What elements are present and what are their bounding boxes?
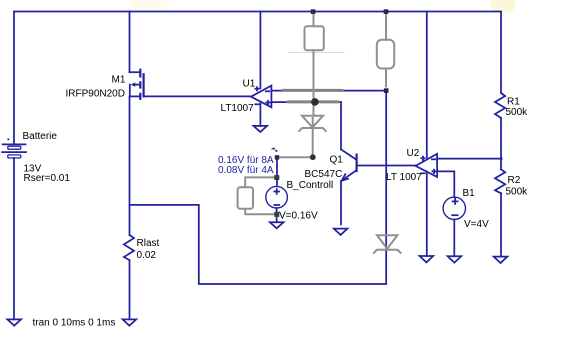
wire U2 V+ supply drop [426,12,428,158]
wire source sense branch [130,91,387,284]
ghost wire rail to box 3 [385,13,387,40]
junction dot loop bottom [274,212,279,217]
ground U1 [254,126,268,132]
wire top rail [14,11,501,13]
svg-text:500k: 500k [506,187,529,198]
svg-text:Batterie: Batterie [23,131,58,142]
R2 value 500k [506,187,529,198]
U2 label [407,148,420,159]
wire U2 inverting input to divider [437,158,501,160]
resistor R2 [495,169,505,193]
wire U1 V- to ground [259,102,261,126]
ground battery [7,319,21,325]
voltage source B_Controll [266,186,288,208]
Rlast value [137,250,157,261]
wire B_Controll top [276,157,278,186]
ghost wire box 3 down [385,69,387,87]
svg-text:Q1: Q1 [330,155,344,166]
op-amp U1 [251,86,271,108]
wire R1 to R2 [500,118,502,169]
Rlast label [137,238,160,249]
svg-text:500k: 500k [506,107,529,118]
svg-text:tran 0 10ms 0 1ms: tran 0 10ms 0 1ms [33,318,116,329]
B1 label [463,188,476,199]
B1 value V=4V [464,219,489,230]
resistor Rlast [124,235,134,260]
R2 label [508,175,521,186]
faint artifact line [288,52,345,54]
wire R2 to ground [500,193,502,256]
svg-text:0.02: 0.02 [137,250,157,261]
battery V1 Batterie [2,138,26,158]
wire U1 inverting input to node [271,90,386,92]
resistor R1 [495,93,505,118]
svg-text:R2: R2 [508,175,521,186]
Q1 value BC547C [305,169,343,180]
svg-text:U2: U2 [407,148,420,159]
wire M1 source down [129,96,131,235]
wire U2 V- to ground [426,172,428,257]
transistor Q1 [341,102,416,224]
junction dot U1 plus gray cross [311,98,319,106]
svg-text:B1: B1 [463,188,476,199]
svg-text:Rser=0.01: Rser=0.01 [24,173,71,184]
ghost component box 1 [305,26,324,50]
Q1 label [330,155,344,166]
wire battery to ground [13,158,15,319]
wire M1 gate to U1 output [144,95,251,97]
ghost loop top wire [245,177,277,187]
junction dot rail gray2 [384,9,389,14]
svg-text:Rlast: Rlast [137,238,160,249]
ghost zener diode D2 [374,235,401,253]
ghost wire box1 to zener [313,50,315,115]
U1 label [243,79,256,90]
ground B_Controll [270,222,284,228]
battery label Batterie [23,131,58,142]
svg-text:0.08V für 4A: 0.08V für 4A [218,165,274,176]
wire M1 drain drop [129,12,131,73]
op-amp U2 [416,154,438,177]
junction divider node [500,157,503,160]
M1 value IRFP90N20D [66,89,125,100]
mosfet M1 [130,70,144,99]
svg-text:LT 1007: LT 1007 [386,172,422,183]
ghost wire overlay on U1 minus input [283,89,342,92]
ground Rlast [123,319,137,325]
comment text 0.16V fuer 8A [218,155,274,166]
ground U2 [420,256,434,262]
junction dot rail gray1 [311,9,316,14]
R1 value 500k [506,107,529,118]
ghost wire overlay on U1 plus input [288,100,338,103]
junction dot B plus top [275,155,279,159]
svg-text:V=0.16V: V=0.16V [279,211,318,222]
ghost loop bottom wire [245,209,277,215]
junction dot loop top [274,175,279,180]
wire B_Controll to ground [276,208,278,222]
svg-text:B_Controll: B_Controll [287,180,334,191]
wire Rlast to ground [129,260,131,319]
svg-text:IRFP90N20D: IRFP90N20D [66,89,125,100]
svg-text:V=4V: V=4V [464,219,489,230]
wire B1 to ground [453,220,455,257]
svg-text:U1: U1 [243,79,256,90]
wire right column top [500,12,502,94]
wire left drop to battery [13,12,15,145]
B_Controll label [287,180,334,191]
svg-text:R1: R1 [507,97,520,108]
battery value 13V Rser [24,163,71,184]
spice directive .tran [33,318,116,329]
ghost zener diode D1 [299,116,326,131]
comment text 0.08V fuer 4A [218,165,274,176]
cursor artifact [271,147,278,152]
ground Q1 emitter [334,229,348,235]
R1 label [507,97,520,108]
wire U1 non-inverting input to Q1 collector [271,101,341,103]
wire U2 non-inverting input to B1 [437,171,454,197]
ghost component box 2 [238,187,253,209]
ghost component box 3 [377,40,394,69]
ghost wire from rail to box [313,13,315,26]
U2 value LT1007 [386,172,422,183]
svg-text:BC547C: BC547C [305,169,343,180]
wire U1 V+ supply drop [259,12,261,89]
ground R2 [494,257,508,263]
ghost wire zener to node [312,118,314,157]
voltage source B1 [443,197,465,219]
ghost wire to B_Controll node [277,156,313,158]
ground B1 [448,256,462,262]
junction dot zener B node [310,154,316,160]
svg-text:M1: M1 [112,75,126,86]
U1 value LT1007 [221,103,255,114]
svg-text:LT1007: LT1007 [221,103,255,114]
svg-text:0.16V für 8A: 0.16V für 8A [218,155,274,166]
junction dot U1 minus node [384,88,389,93]
M1 label [112,75,126,86]
B_Controll value [279,211,318,222]
